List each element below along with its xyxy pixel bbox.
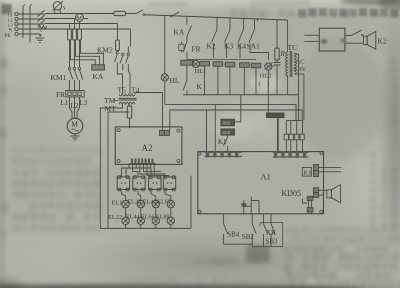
A1 screws	[198, 152, 201, 155]
speaker wires	[319, 189, 327, 191]
speaker internal	[327, 190, 332, 198]
XK bracket	[260, 223, 283, 247]
switch K	[183, 80, 187, 90]
A2 fanout wires	[122, 163, 130, 177]
drop SA1 aux	[257, 19, 259, 21]
capacitor C	[276, 60, 278, 63]
K1 relay box label	[302, 168, 311, 177]
thermal overload FR	[66, 91, 84, 97]
fuse FU1	[68, 29, 72, 40]
bottom tie wire	[224, 243, 253, 245]
lamp EL88	[167, 217, 174, 224]
drop to fuse 3	[79, 21, 81, 29]
relay coil KA	[92, 65, 105, 70]
wire L3	[18, 23, 45, 25]
coil YV1	[213, 62, 223, 67]
amplifier input wires	[305, 34, 320, 36]
wire PE	[18, 33, 40, 35]
switch to speaker	[345, 34, 352, 36]
long wire A	[165, 104, 296, 120]
coil KM4	[251, 63, 261, 68]
wire 805 up	[235, 95, 241, 122]
wire KM1 col3	[79, 40, 81, 67]
inter-row wires	[125, 208, 127, 217]
lamp bottom rail	[125, 225, 127, 229]
contactor KM1 pole1	[68, 67, 70, 69]
fuse FU5 in control line	[114, 11, 126, 15]
contact K top	[172, 12, 179, 16]
switch XK	[263, 214, 265, 224]
wires from KD05 down	[241, 203, 246, 207]
motor M main	[67, 118, 83, 134]
contact in supply line	[126, 13, 136, 15]
lamp EL66	[152, 217, 159, 224]
amplifier unit	[319, 28, 345, 51]
terminal L2	[15, 17, 18, 20]
ground PE	[36, 37, 45, 39]
lamp EL23	[137, 200, 144, 207]
wire KM2 to TM	[117, 70, 122, 94]
terminal L3	[15, 22, 18, 25]
branch K4	[243, 18, 245, 29]
drop to fuse 2	[74, 19, 76, 30]
terminal PE	[15, 32, 18, 35]
lamp HL2	[265, 63, 272, 70]
connector columns	[286, 120, 302, 122]
contactor KM2 pole2	[122, 53, 124, 55]
wire N drop	[130, 29, 132, 47]
A2 bottom terminal row	[131, 159, 133, 164]
left terminal strip	[205, 151, 243, 153]
wire frame left inner	[108, 112, 130, 228]
wires to right upper	[319, 166, 342, 168]
lamp EL22	[122, 217, 129, 224]
wire to motor 3	[79, 97, 81, 108]
lamp HL1	[192, 60, 199, 67]
switch QS pole 3	[38, 20, 45, 26]
lamp column wires	[122, 191, 126, 200]
fuse FU4	[117, 24, 119, 41]
speaker K2	[345, 42, 364, 44]
ground below motor	[74, 134, 76, 136]
branch K3	[229, 18, 231, 30]
motor pump M	[76, 14, 84, 22]
coil YV2	[225, 62, 235, 67]
wire L2	[18, 18, 45, 20]
A2 top connector	[160, 130, 165, 135]
coil YV3	[240, 63, 250, 68]
wire T4 to A2 connector	[135, 93, 163, 131]
connector stack upper	[314, 165, 319, 171]
connector stack lower	[314, 188, 319, 193]
relay module 1	[117, 177, 129, 190]
wire to motor 2	[74, 97, 76, 118]
long wire B	[170, 110, 302, 130]
switch QS pole 2	[38, 15, 45, 21]
relay module 2	[133, 177, 145, 190]
contactor KM1 pole2	[73, 67, 75, 69]
fuse FU3	[78, 29, 82, 40]
dark bus bar	[267, 113, 285, 118]
lamp EL45	[152, 200, 159, 207]
resistor R	[276, 20, 278, 48]
pushbutton SB3	[270, 214, 272, 224]
drop to fuse 1	[69, 24, 71, 30]
wire bend to KA a	[81, 40, 104, 65]
contactor KM1 pole3	[78, 67, 80, 69]
switch QS pole 1	[38, 10, 45, 16]
right terminal strip	[273, 151, 309, 153]
fuse FU2	[73, 29, 77, 40]
electronic unit A2	[115, 127, 182, 164]
contactor KM2 pole1	[116, 51, 118, 52]
lower column component	[308, 196, 310, 214]
coil drops to bus	[186, 65, 188, 80]
riser bar 2	[29, 6, 31, 43]
branch K2	[216, 17, 218, 29]
top bus	[145, 15, 288, 20]
relay module 4	[163, 177, 175, 190]
branch SA1	[254, 19, 256, 30]
lamp HL	[161, 74, 168, 81]
transformer TC windings	[286, 52, 288, 76]
wire L1	[18, 13, 46, 15]
terminal N	[15, 27, 18, 30]
coil KV1	[200, 61, 210, 66]
pushbutton SB2	[251, 214, 253, 224]
QS linkage dashes	[40, 30, 42, 32]
wire KM1 col2	[74, 40, 76, 67]
bottom bus	[183, 94, 298, 96]
riser bar 1	[22, 7, 24, 39]
wire bend to KA c	[71, 40, 96, 65]
pushbutton SB4	[223, 214, 225, 224]
wire N	[18, 28, 130, 30]
wire KM1 col1	[69, 40, 71, 67]
row tie wire	[187, 59, 256, 61]
relay module 3	[149, 177, 161, 190]
contact K1	[227, 135, 229, 137]
lamp EL1	[122, 200, 129, 207]
wire TM secondary left	[100, 104, 122, 228]
lamp EL44	[137, 217, 144, 224]
left rail	[164, 16, 166, 74]
wire bend to KA b	[76, 40, 100, 65]
TC secondary leads	[294, 53, 298, 55]
contact KA	[187, 26, 192, 37]
transformer TC primary lead	[287, 20, 289, 52]
diode boxes 805	[221, 119, 235, 126]
A2 screws	[117, 129, 120, 132]
coil KM3	[181, 60, 193, 65]
thick drop	[277, 118, 279, 152]
rail below HL	[164, 81, 166, 104]
wire to motor 1	[69, 97, 71, 108]
thermal contact FR	[179, 44, 184, 50]
right return wire	[190, 176, 192, 229]
meter instrument	[53, 2, 61, 10]
lamp EL67	[167, 200, 174, 207]
transformer TM	[119, 94, 135, 96]
resistor on TM secondary	[129, 104, 131, 106]
wires above left strip	[206, 110, 208, 151]
terminal L1	[15, 12, 18, 15]
fuse element zigzag	[39, 26, 47, 29]
branch KA	[186, 16, 188, 25]
L wire lower	[303, 199, 308, 204]
electronic unit A1	[198, 152, 324, 214]
HL2 drop	[267, 70, 269, 113]
contactor KM2 pole3	[127, 47, 129, 53]
